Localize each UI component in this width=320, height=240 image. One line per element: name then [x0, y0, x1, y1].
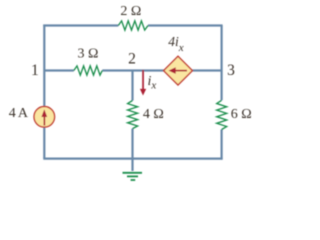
svg-text:2: 2	[128, 51, 136, 68]
svg-text:2 Ω: 2 Ω	[120, 4, 141, 19]
svg-text:A: A	[18, 106, 29, 121]
svg-text:3: 3	[227, 62, 235, 79]
svg-text:1: 1	[31, 62, 39, 79]
svg-text:6 Ω: 6 Ω	[231, 107, 252, 122]
svg-text:4 Ω: 4 Ω	[143, 107, 164, 122]
svg-text:4: 4	[9, 106, 16, 121]
svg-text:3 Ω: 3 Ω	[77, 46, 98, 61]
